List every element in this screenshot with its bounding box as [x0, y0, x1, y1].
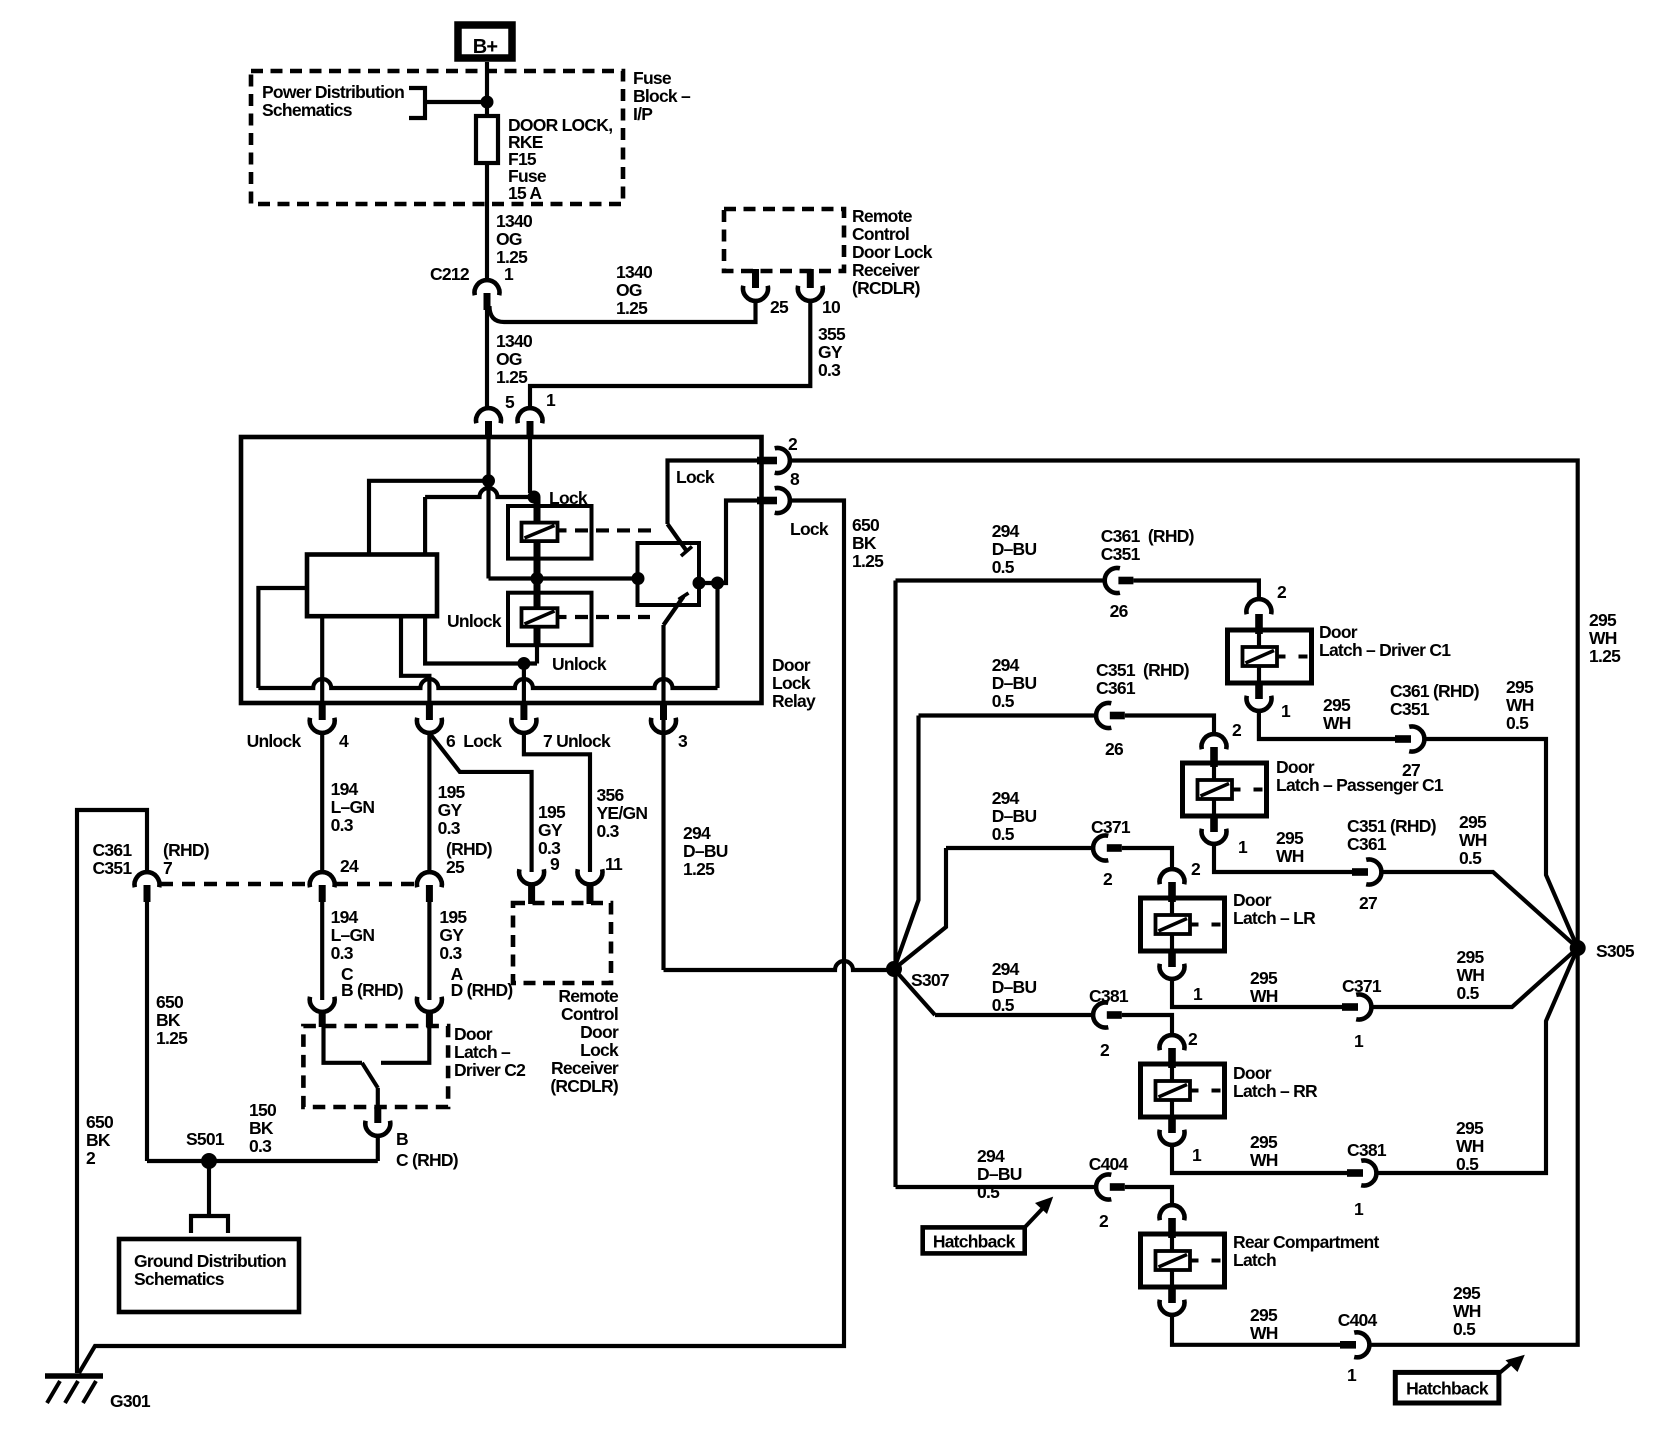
svg-text:Control: Control: [852, 224, 909, 244]
junction dot pin5 branch: [482, 474, 495, 487]
svg-text:C361: C361: [93, 840, 133, 860]
wire row5 to latch: [1125, 1187, 1172, 1206]
hatchback callout box bottom: [1395, 1372, 1499, 1403]
connector C pin: [319, 1011, 326, 1027]
svg-text:2: 2: [1232, 720, 1242, 740]
relay wire to driver block top: [369, 481, 489, 555]
svg-text:C361: C361: [1347, 834, 1387, 854]
svg-text:0.3: 0.3: [438, 818, 461, 838]
svg-text:26: 26: [1105, 739, 1124, 759]
svg-text:294: 294: [992, 959, 1020, 979]
svg-text:0.5: 0.5: [1457, 983, 1480, 1003]
svg-text:Door: Door: [772, 655, 811, 675]
bracket to power distribution: [409, 88, 425, 118]
svg-text:WH: WH: [1323, 713, 1351, 733]
svg-text:9: 9: [550, 854, 560, 874]
svg-text:294: 294: [992, 788, 1020, 808]
svg-text:195: 195: [538, 802, 566, 822]
rear compartment latch: [1141, 1234, 1225, 1287]
svg-text:WH: WH: [1250, 1150, 1278, 1170]
svg-text:Rear Compartment: Rear Compartment: [1233, 1232, 1379, 1252]
svg-text:295: 295: [1589, 610, 1617, 630]
connector 1 row3 cup: [1160, 964, 1185, 979]
svg-text:1.25: 1.25: [683, 859, 715, 879]
svg-text:0.5: 0.5: [992, 557, 1015, 577]
svg-text:1: 1: [1354, 1031, 1364, 1051]
ground G301 bar: [45, 1373, 103, 1379]
connector C404 row5 right male: [1340, 1341, 1356, 1349]
wire row1 feed: [896, 578, 1105, 582]
svg-text:650: 650: [852, 515, 880, 535]
svg-text:295: 295: [1456, 1118, 1484, 1138]
svg-text:Lock: Lock: [772, 673, 811, 693]
RCDLR pin 9 cup: [519, 869, 544, 884]
svg-text:(RCDLR): (RCDLR): [852, 278, 920, 298]
svg-text:295: 295: [1453, 1283, 1481, 1303]
RCDLR pin 10 female cup: [798, 286, 823, 301]
svg-text:S501: S501: [186, 1129, 225, 1149]
lock coil element: [522, 523, 558, 542]
connector 1 row2 cup: [1202, 829, 1227, 844]
wire S307 riser: [893, 581, 897, 971]
junction dot contact node b: [711, 577, 724, 590]
unlock coil element: [522, 608, 558, 627]
relay pin3 wire from blade: [661, 625, 665, 703]
svg-text:WH: WH: [1459, 830, 1487, 850]
unlock coil bottom wire: [425, 616, 537, 663]
svg-text:5: 5: [505, 392, 515, 412]
wire row3 return: [1172, 978, 1342, 1007]
wire row5 to S305: [1370, 948, 1578, 1345]
svg-text:0.5: 0.5: [1506, 713, 1529, 733]
svg-text:GY: GY: [538, 820, 563, 840]
wire row3 feed: [946, 846, 1093, 850]
junction dot S501: [201, 1153, 217, 1169]
svg-text:0.5: 0.5: [992, 995, 1015, 1015]
svg-text:C361: C361: [1096, 678, 1136, 698]
ground G301 hatches: [47, 1381, 96, 1403]
wire row3 to latch: [1122, 848, 1172, 870]
wire row1 return: [1259, 710, 1395, 739]
svg-text:295: 295: [1323, 695, 1351, 715]
svg-text:26: 26: [1110, 601, 1129, 621]
connector C351 RHD C361 row2 male: [1110, 712, 1125, 720]
wire S307 drop: [893, 970, 897, 1187]
svg-text:0.3: 0.3: [331, 943, 354, 963]
svg-text:L–GN: L–GN: [331, 925, 375, 945]
svg-text:0.5: 0.5: [992, 824, 1015, 844]
svg-text:0.5: 0.5: [1453, 1319, 1476, 1339]
wire S307 diag to row2: [894, 716, 919, 970]
junction dot contact frame left: [632, 572, 645, 585]
svg-text:Latch – RR: Latch – RR: [1233, 1081, 1318, 1101]
svg-text:Door: Door: [1276, 757, 1315, 777]
svg-text:I/P: I/P: [633, 104, 653, 124]
connector 2 row3 female half: [1160, 869, 1185, 884]
svg-text:2: 2: [1099, 1211, 1109, 1231]
wire S501 to ground schematics: [207, 1161, 211, 1216]
svg-text:0.3: 0.3: [249, 1136, 272, 1156]
wire RCDLR pin 10 to relay pin 1: [530, 300, 810, 410]
unlock coil slash: [525, 611, 555, 624]
relay pin 8 female arc: [775, 488, 790, 513]
svg-text:Remote: Remote: [852, 206, 913, 226]
svg-text:C371: C371: [1091, 817, 1131, 837]
wire S307 diag to row4: [894, 969, 935, 1015]
svg-text:2: 2: [1188, 1029, 1198, 1049]
wire row5 return: [1172, 1314, 1340, 1345]
svg-text:D–BU: D–BU: [992, 673, 1037, 693]
latch C2 switch blade: [362, 1063, 378, 1088]
svg-text:B+: B+: [473, 36, 498, 58]
door lock relay outer box: [241, 437, 762, 703]
svg-text:1: 1: [1192, 1145, 1202, 1165]
relay pin 4 male stub: [319, 703, 326, 720]
relay pin2 internal wire: [668, 461, 762, 525]
junction dot unlock pin7 branch: [517, 657, 530, 670]
svg-text:C381: C381: [1089, 986, 1129, 1006]
lock coil pin vertical: [534, 497, 541, 579]
dashed RHD row segment 1: [160, 882, 309, 886]
wire row1 to latch: [1133, 581, 1259, 602]
svg-text:6 Lock: 6 Lock: [446, 731, 502, 751]
svg-text:0.5: 0.5: [977, 1182, 1000, 1202]
connector 2 row4 female half: [1160, 1035, 1185, 1050]
svg-text:4: 4: [339, 731, 349, 751]
svg-text:10: 10: [822, 297, 841, 317]
relay wire left drop to driver block: [423, 497, 427, 555]
door latch LR: [1141, 898, 1225, 951]
svg-text:0.5: 0.5: [1456, 1154, 1479, 1174]
svg-text:0.5: 0.5: [992, 691, 1015, 711]
svg-text:G301: G301: [110, 1391, 151, 1411]
svg-text:(RHD): (RHD): [163, 840, 209, 860]
svg-text:1.25: 1.25: [852, 551, 884, 571]
connector 25 male pin: [426, 885, 433, 902]
door latch driver C2 dashed box: [303, 1026, 448, 1107]
unlock coil dashed link to contact: [558, 615, 567, 619]
svg-text:D–BU: D–BU: [683, 841, 728, 861]
junction dot lock coil bottom: [531, 572, 544, 585]
svg-text:Hatchback: Hatchback: [933, 1232, 1016, 1252]
svg-text:Ground Distribution: Ground Distribution: [134, 1251, 286, 1271]
svg-text:295: 295: [1250, 968, 1278, 988]
relay wire pin1 vertical: [528, 437, 532, 493]
connector C371 row3 right female: [1356, 995, 1371, 1020]
svg-text:Latch –: Latch –: [454, 1042, 511, 1062]
connector C212 female half: [475, 280, 500, 295]
connector A pin: [426, 1011, 433, 1027]
svg-text:Door: Door: [454, 1024, 493, 1044]
relay driver block: [307, 555, 437, 617]
wire 650 BK from relay lock: [79, 501, 844, 1374]
svg-text:195: 195: [438, 782, 466, 802]
svg-text:(RCDLR): (RCDLR): [550, 1076, 618, 1096]
dashed RHD row segment 2: [335, 882, 416, 886]
wire row2 to S305: [1382, 872, 1578, 948]
svg-text:GY: GY: [438, 800, 463, 820]
connector C371 row3 male: [1107, 844, 1122, 852]
connector C361 row1 right male: [1395, 735, 1411, 743]
connector C381 row4 female: [1093, 1002, 1108, 1027]
wire S307 diag to row3: [894, 848, 946, 969]
svg-text:D–BU: D–BU: [992, 806, 1037, 826]
unlock coil pin vertical: [534, 579, 541, 646]
connector 25 female half: [417, 872, 442, 887]
connector A cup: [417, 997, 442, 1012]
relay pin 5 male pin: [485, 421, 492, 438]
latch C2 internal wire left: [324, 1026, 363, 1063]
svg-text:WH: WH: [1457, 965, 1485, 985]
svg-text:Fuse: Fuse: [633, 68, 672, 88]
svg-text:C212: C212: [430, 264, 470, 284]
wire B to S501 row: [376, 1135, 380, 1161]
svg-text:WH: WH: [1589, 628, 1617, 648]
svg-text:D–BU: D–BU: [977, 1164, 1022, 1184]
svg-text:294: 294: [683, 823, 711, 843]
svg-text:GY: GY: [818, 342, 843, 362]
relay pin 5 female half: [476, 408, 501, 423]
relay pin4 wire: [320, 616, 324, 703]
latch C2 pin B male: [374, 1107, 381, 1123]
svg-text:Control: Control: [561, 1004, 618, 1024]
svg-text:Lock: Lock: [676, 467, 715, 487]
wire row5 feed: [896, 1185, 1097, 1189]
svg-text:11: 11: [605, 854, 623, 874]
svg-text:294: 294: [977, 1146, 1005, 1166]
svg-text:Hatchback: Hatchback: [1406, 1379, 1489, 1399]
svg-text:295: 295: [1457, 947, 1485, 967]
svg-text:2: 2: [788, 434, 798, 454]
svg-text:B: B: [396, 1129, 408, 1149]
svg-text:GY: GY: [439, 925, 464, 945]
svg-text:Receiver: Receiver: [852, 260, 920, 280]
svg-text:2: 2: [1277, 582, 1287, 602]
connector C361 row1 right female: [1409, 727, 1424, 752]
svg-text:C404: C404: [1338, 1310, 1378, 1330]
svg-text:Latch – Passenger C1: Latch – Passenger C1: [1276, 775, 1444, 795]
relay pin 7 male stub: [520, 703, 527, 720]
door latch driver C1: [1228, 630, 1312, 683]
contact node drop to common: [715, 583, 719, 688]
svg-text:D (RHD): D (RHD): [451, 980, 513, 1000]
svg-text:Door: Door: [1233, 890, 1272, 910]
hatchback arrow bottom: [1499, 1360, 1515, 1374]
svg-text:C361 (RHD): C361 (RHD): [1390, 681, 1479, 701]
svg-text:194: 194: [331, 779, 359, 799]
wire C212 to relay pin 5: [485, 308, 489, 410]
relay pin 2 male bar: [757, 457, 777, 465]
lock relay coil box: [508, 506, 592, 559]
wire pin6 to connector 25: [427, 732, 431, 874]
relay pin 2 female arc: [775, 448, 790, 473]
latch C2 common drop: [376, 1088, 380, 1108]
wire 195 GY lower: [427, 902, 431, 1000]
svg-text:BK: BK: [86, 1130, 111, 1150]
svg-text:2: 2: [1100, 1040, 1110, 1060]
relay pin7 wire: [522, 664, 526, 704]
relay pin 6 female cup: [417, 718, 442, 733]
svg-text:WH: WH: [1276, 846, 1304, 866]
RCDLR pin 11 cup: [577, 869, 602, 884]
svg-text:BK: BK: [852, 533, 877, 553]
door latch RR: [1141, 1064, 1225, 1117]
svg-text:1.25: 1.25: [616, 298, 648, 318]
svg-text:Unlock: Unlock: [247, 731, 302, 751]
svg-text:295: 295: [1506, 677, 1534, 697]
svg-text:0.3: 0.3: [439, 943, 462, 963]
svg-text:Driver C2: Driver C2: [454, 1060, 526, 1080]
latch C2 pin B cup: [365, 1121, 390, 1136]
svg-text:S305: S305: [1596, 941, 1635, 961]
wire pin4 to connector 24: [320, 732, 324, 874]
wire pin3 to S307: [664, 961, 895, 970]
contact common node wire: [699, 501, 762, 584]
connector 24 male pin: [319, 885, 326, 902]
connector C351 row2 right female: [1366, 860, 1381, 885]
svg-text:D–BU: D–BU: [992, 977, 1037, 997]
svg-text:0.3: 0.3: [818, 360, 841, 380]
connector 2 row1 female half: [1246, 599, 1271, 614]
svg-text:1340: 1340: [496, 211, 533, 231]
RCDLR pin 25 female cup: [743, 286, 768, 301]
connector C404 row5 right female: [1354, 1332, 1369, 1357]
RCDLR pin 11 male: [587, 884, 594, 904]
svg-text:WH: WH: [1250, 1323, 1278, 1343]
wire bracket to B+ node: [425, 100, 487, 104]
wire S501 row: [147, 1159, 378, 1163]
svg-text:650: 650: [86, 1112, 114, 1132]
svg-text:150: 150: [249, 1100, 277, 1120]
connector C361 C351 left female half: [135, 872, 160, 887]
svg-text:2: 2: [86, 1148, 96, 1168]
svg-text:24: 24: [340, 856, 359, 876]
connector C404 row5 female: [1096, 1175, 1111, 1200]
svg-text:3: 3: [678, 731, 688, 751]
wire row4 feed: [935, 1013, 1093, 1017]
svg-text:15 A: 15 A: [508, 183, 542, 203]
svg-text:C351 (RHD): C351 (RHD): [1347, 816, 1436, 836]
svg-text:1.25: 1.25: [156, 1028, 188, 1048]
connector 24 female half: [310, 872, 335, 887]
svg-text:1.25: 1.25: [496, 367, 528, 387]
svg-text:650: 650: [156, 992, 184, 1012]
svg-text:1340: 1340: [616, 262, 653, 282]
svg-text:OG: OG: [496, 229, 522, 249]
svg-text:295: 295: [1459, 812, 1487, 832]
svg-text:294: 294: [992, 521, 1020, 541]
svg-text:1.25: 1.25: [1589, 646, 1621, 666]
wire row4 to latch: [1122, 1015, 1172, 1036]
relay contact frame square: [638, 543, 700, 605]
RCDLR pin 25 male: [752, 269, 759, 288]
svg-text:Unlock: Unlock: [447, 611, 502, 631]
svg-text:1: 1: [1354, 1199, 1364, 1219]
svg-text:Power Distribution: Power Distribution: [262, 82, 404, 102]
connector C212 male pin: [484, 293, 491, 310]
power node B+ terminal box: [458, 25, 512, 58]
svg-text:WH: WH: [1456, 1136, 1484, 1156]
wire row4 return: [1172, 1144, 1347, 1173]
svg-text:OG: OG: [616, 280, 642, 300]
bracket ground schematics: [191, 1216, 228, 1233]
svg-text:1: 1: [1347, 1365, 1357, 1385]
svg-text:WH: WH: [1453, 1301, 1481, 1321]
svg-text:27: 27: [1359, 893, 1377, 913]
svg-text:25: 25: [770, 297, 789, 317]
relay pin 4 female cup: [310, 718, 335, 733]
svg-text:D–BU: D–BU: [992, 539, 1037, 559]
svg-text:C (RHD): C (RHD): [396, 1150, 458, 1170]
svg-text:0.5: 0.5: [1459, 848, 1482, 868]
connector C351 row2 right male: [1352, 868, 1368, 876]
wire row2 return: [1214, 843, 1352, 872]
svg-text:C351: C351: [93, 858, 133, 878]
svg-text:Lock: Lock: [580, 1040, 619, 1060]
svg-text:Door: Door: [1233, 1063, 1272, 1083]
door latch passenger C1: [1183, 763, 1267, 816]
svg-text:7: 7: [163, 858, 172, 878]
svg-text:Block –: Block –: [633, 86, 691, 106]
connector C381 row4 right female: [1361, 1160, 1376, 1185]
wire pin6 branch to RCDLR 9: [429, 733, 531, 872]
latch C2 internal wire right: [381, 1026, 429, 1063]
wire row2 feed: [919, 713, 1097, 717]
svg-text:Lock: Lock: [790, 519, 829, 539]
ground distribution schematics box: [119, 1239, 299, 1312]
relay pin 7 female cup: [511, 718, 536, 733]
relay common wire with hops: [258, 679, 717, 688]
svg-text:Door: Door: [580, 1022, 619, 1042]
svg-text:BK: BK: [249, 1118, 274, 1138]
fuse block I/P dashed box: [251, 71, 623, 204]
junction dot on B+ wire: [481, 96, 494, 109]
svg-text:1: 1: [1281, 701, 1291, 721]
svg-text:C351 (RHD): C351 (RHD): [1096, 660, 1189, 680]
svg-text:294: 294: [992, 655, 1020, 675]
wire pin7 to RCDLR 11: [524, 732, 590, 872]
svg-text:195: 195: [439, 907, 467, 927]
svg-text:WH: WH: [1250, 986, 1278, 1006]
svg-text:BK: BK: [156, 1010, 181, 1030]
svg-text:L–GN: L–GN: [331, 797, 375, 817]
unlock relay coil box: [508, 593, 592, 646]
svg-text:OG: OG: [496, 349, 522, 369]
svg-text:Schematics: Schematics: [262, 100, 353, 120]
relay pin6 wire: [401, 616, 429, 703]
svg-text:1: 1: [1193, 984, 1203, 1004]
connector C361 RHD C351 row1 female: [1105, 568, 1120, 593]
svg-text:295: 295: [1250, 1132, 1278, 1152]
svg-text:Latch: Latch: [1233, 1250, 1276, 1270]
svg-text:Door Lock: Door Lock: [852, 242, 933, 262]
svg-text:Receiver: Receiver: [551, 1058, 619, 1078]
connector C371 row3 female: [1093, 836, 1108, 861]
lock coil slash: [525, 526, 555, 539]
lock coil dashed link to contact: [558, 528, 567, 532]
relay pin 8 male bar: [757, 497, 777, 505]
svg-text:2: 2: [1103, 869, 1113, 889]
relay pin 6 male stub: [426, 703, 433, 720]
wire 650 BK 1.25 down: [145, 901, 149, 1161]
svg-text:1: 1: [1238, 837, 1248, 857]
junction dot S307: [886, 961, 902, 977]
connector C351 RHD C361 row2 female: [1096, 703, 1111, 728]
svg-text:355: 355: [818, 324, 846, 344]
connector 2 row2 female half: [1202, 734, 1227, 749]
svg-text:S307: S307: [911, 970, 949, 990]
wire 194 LGN lower: [320, 902, 324, 1000]
